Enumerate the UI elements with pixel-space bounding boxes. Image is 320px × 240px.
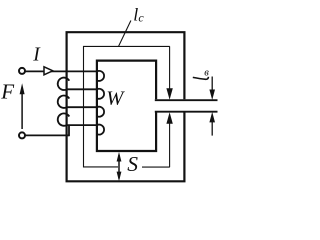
upper terminal bbox=[19, 68, 25, 74]
coil left arc 3 bbox=[58, 113, 70, 125]
coil right arc 1 bbox=[97, 71, 104, 81]
coil right arc 3 bbox=[97, 107, 104, 117]
lower terminal bbox=[19, 132, 25, 138]
svg-text:в: в bbox=[204, 67, 209, 78]
coil right arc 2 bbox=[97, 89, 104, 99]
coil crossing wire 3 bbox=[67, 106, 97, 108]
coil crossing wire 2 bbox=[67, 88, 97, 90]
svg-text:F: F bbox=[0, 80, 14, 104]
flux arrow up (right leg, below gap) bbox=[166, 112, 172, 167]
coil wire top (from terminal I) bbox=[25, 70, 97, 72]
core outer outline bbox=[67, 32, 185, 181]
l_c leader line bbox=[119, 21, 131, 47]
air-gap dimension arrow lower (l_b) bbox=[209, 112, 215, 136]
svg-text:I: I bbox=[32, 45, 41, 66]
air-gap dimension arrow upper (l_b) bbox=[209, 77, 215, 101]
coil crossing wire 4 bbox=[67, 124, 97, 126]
coil left arc 1 bbox=[58, 78, 70, 90]
label l_b: italic l drawn as stroke (rotated style) bbox=[193, 77, 209, 80]
S dimension double arrow bbox=[117, 152, 122, 181]
lower wire from terminal bbox=[25, 134, 69, 136]
coil left arc 2 bbox=[58, 96, 70, 108]
svg-text:lc: lc bbox=[133, 5, 144, 25]
current direction arrow I (open triangle) bbox=[44, 67, 53, 75]
svg-text:W: W bbox=[106, 87, 125, 109]
flux arrow down (right leg, above gap) bbox=[166, 46, 172, 99]
svg-text:S: S bbox=[127, 152, 138, 176]
lower stub up to coil bbox=[68, 125, 70, 136]
air gap top line bbox=[155, 99, 218, 101]
coil right arc 4 bbox=[97, 125, 104, 135]
core window (inner hole) bbox=[97, 61, 156, 151]
mean magnetic path l_c (thin inner rectangle) bbox=[84, 46, 170, 167]
air gap bottom line bbox=[155, 111, 218, 113]
F (mmf) arrow bbox=[20, 83, 25, 129]
